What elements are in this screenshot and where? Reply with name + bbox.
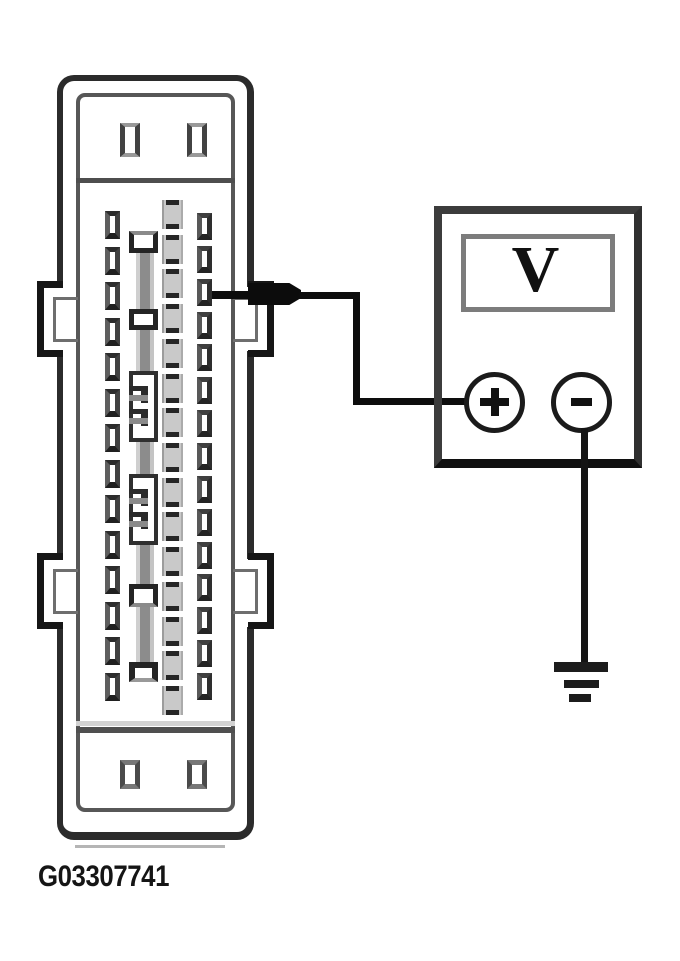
key rib bar segment xyxy=(136,253,154,309)
connector shell cutout right (tab opening) xyxy=(245,559,256,627)
pin A4 xyxy=(105,318,120,346)
key rib maze finger stub xyxy=(141,493,148,506)
key rib bar segment xyxy=(136,442,154,474)
pin C13 xyxy=(162,617,183,646)
ground symbol bar 2 xyxy=(564,680,599,688)
wire probe to corner (horizontal) xyxy=(299,292,360,299)
figure number caption G03307741 xyxy=(38,860,169,894)
connector right mounting tab y281 xyxy=(248,281,274,357)
pin A6 xyxy=(105,389,120,417)
connector index slot top-right xyxy=(187,123,207,157)
key rib maze finger grey bar xyxy=(129,521,148,527)
pin C3 xyxy=(162,269,183,298)
pin C8 xyxy=(162,443,183,472)
connector divider lower xyxy=(76,727,235,733)
key rib maze frame y371 xyxy=(129,371,158,442)
pin C6 xyxy=(162,374,183,403)
connector divider upper xyxy=(76,178,235,183)
key rib maze finger bar xyxy=(129,489,148,494)
connector shell cutout left (tab opening) xyxy=(55,559,66,627)
connector index slot bottom-left xyxy=(120,760,140,789)
pin A3 xyxy=(105,282,120,310)
pin A12 xyxy=(105,602,120,630)
key rib maze finger grey bar xyxy=(129,418,148,424)
pin C15 xyxy=(162,686,183,715)
pin D14 xyxy=(197,640,212,667)
connector J1 inner shell xyxy=(76,93,235,812)
pin C2 xyxy=(162,235,183,264)
key rib cap 2 xyxy=(129,309,158,330)
pin C1 xyxy=(162,200,183,229)
voltmeter plus jack xyxy=(464,372,525,433)
pin D6 xyxy=(197,377,212,404)
pin D2 xyxy=(197,246,212,273)
key rib maze finger stub xyxy=(141,516,148,529)
pin D13 xyxy=(197,607,212,634)
pin C12 xyxy=(162,582,183,611)
pin A13 xyxy=(105,637,120,665)
key rib maze finger grey bar xyxy=(129,395,148,401)
pin D5 xyxy=(197,344,212,371)
ground symbol bar 3 xyxy=(569,694,591,702)
minus jack symbol bar xyxy=(571,398,592,406)
connector shell cutout left (tab opening) xyxy=(55,287,66,351)
connector left tab inner detail y553 xyxy=(53,569,78,614)
probe tip xyxy=(212,291,252,299)
pin A14 xyxy=(105,673,120,701)
plus jack symbol horizontal bar xyxy=(480,398,509,406)
ground symbol bar 1 xyxy=(554,662,608,672)
key rib cap 3 xyxy=(129,584,158,607)
key rib maze finger bar xyxy=(129,386,148,391)
pin A11 xyxy=(105,566,120,594)
pin D11 xyxy=(197,542,212,569)
connector right tab inner detail y553 xyxy=(233,569,258,614)
connector left tab inner detail y281 xyxy=(53,297,78,342)
connector J1 outer shell xyxy=(57,75,254,840)
wire to voltmeter plus jack (horizontal) xyxy=(353,398,470,405)
wire minus jack to ground (vertical) xyxy=(581,428,588,663)
key rib bar segment xyxy=(136,330,154,371)
pin D3 xyxy=(197,279,212,306)
key rib bar segment xyxy=(136,544,154,584)
connector index slot bottom-right xyxy=(187,760,207,789)
pin D1 xyxy=(197,213,212,240)
pin D4 xyxy=(197,312,212,339)
connector shell cutout right (tab opening) xyxy=(245,287,256,351)
pin D9 xyxy=(197,476,212,503)
pin C14 xyxy=(162,651,183,680)
voltmeter minus jack xyxy=(551,372,612,433)
key rib cap 1 xyxy=(129,231,158,253)
pin D10 xyxy=(197,509,212,536)
connector left mounting tab y553 xyxy=(37,553,63,629)
voltmeter display window xyxy=(461,234,615,312)
wire corner down (vertical) xyxy=(353,292,360,405)
pin A7 xyxy=(105,424,120,452)
pin C9 xyxy=(162,478,183,507)
voltmeter display label V xyxy=(461,234,615,312)
key rib maze finger bar xyxy=(129,512,148,517)
connector divider lower ghost xyxy=(76,721,235,726)
pin A2 xyxy=(105,247,120,275)
connector right tab inner detail y281 xyxy=(233,297,258,342)
pin C11 xyxy=(162,547,183,576)
pin A10 xyxy=(105,531,120,559)
probe body xyxy=(248,283,301,305)
key rib maze finger grey bar xyxy=(129,498,148,504)
key rib cap 4 xyxy=(129,662,158,682)
key rib bar segment xyxy=(136,607,154,662)
pin D12 xyxy=(197,574,212,601)
pin D15 xyxy=(197,673,212,700)
voltmeter M1 case xyxy=(434,206,642,468)
pin D7 xyxy=(197,410,212,437)
pin A1 xyxy=(105,211,120,239)
pin C5 xyxy=(162,339,183,368)
key rib maze frame y474 xyxy=(129,474,158,545)
pin A9 xyxy=(105,495,120,523)
key rib maze finger stub xyxy=(141,413,148,426)
connector right mounting tab y553 xyxy=(248,553,274,629)
connector shell ghost line (scan) xyxy=(75,845,225,848)
pin A8 xyxy=(105,460,120,488)
connector index slot top-left xyxy=(120,123,140,157)
pin C7 xyxy=(162,408,183,437)
key rib maze finger bar xyxy=(129,409,148,414)
pin C4 xyxy=(162,304,183,333)
pin C10 xyxy=(162,512,183,541)
connector left mounting tab y281 xyxy=(37,281,63,357)
pin D8 xyxy=(197,443,212,470)
plus jack symbol vertical bar xyxy=(491,388,499,416)
key rib maze finger stub xyxy=(141,390,148,403)
pin A5 xyxy=(105,353,120,381)
